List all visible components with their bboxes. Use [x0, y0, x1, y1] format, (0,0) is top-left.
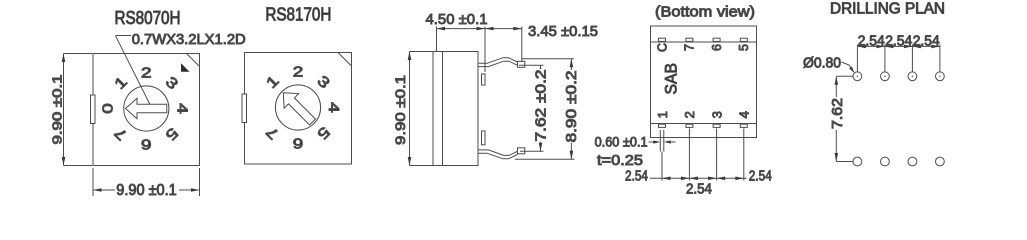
svg-text:9.90 ±0.1: 9.90 ±0.1 [116, 182, 177, 199]
leader line to rotor [116, 35, 132, 37]
rotor arrow slot [126, 98, 167, 119]
svg-text:6: 6 [710, 44, 724, 51]
dimension 9.90 below view1 [92, 168, 94, 196]
svg-text:C: C [655, 43, 669, 52]
top pin pad 6 [713, 38, 720, 41]
svg-text:2: 2 [682, 111, 697, 118]
svg-text:1: 1 [263, 73, 282, 92]
bottom pin end lug [518, 148, 525, 154]
svg-text:7.62 ±0.2: 7.62 ±0.2 [534, 70, 550, 142]
svg-text:2.54: 2.54 [885, 32, 912, 49]
bottom pin pad 2 [686, 124, 693, 127]
svg-text:2: 2 [141, 64, 152, 81]
rotor circle [124, 86, 169, 131]
svg-text:2.54: 2.54 [913, 32, 940, 49]
svg-text:DRILLING PLAN: DRILLING PLAN [830, 0, 945, 17]
svg-text:9.90 ±0.1: 9.90 ±0.1 [392, 75, 408, 145]
svg-text:7: 7 [111, 124, 130, 143]
corner index triangle [181, 63, 190, 72]
dimension 2.54 pin pitch row [650, 177, 747, 179]
svg-text:5: 5 [162, 124, 181, 143]
pin 1 center line [661, 152, 663, 181]
dimension 8.90 overall pin span [522, 58, 574, 60]
svg-text:2.54: 2.54 [686, 182, 712, 198]
corner chamfer line [187, 54, 200, 67]
switch body RS8070H [93, 54, 200, 166]
svg-text:0.7WX3.2LX1.2D: 0.7WX3.2LX1.2D [132, 31, 246, 48]
svg-text:SAB: SAB [662, 63, 681, 95]
lower seating tab [482, 131, 486, 145]
svg-text:6: 6 [293, 135, 304, 152]
top pin pad 7 [686, 38, 693, 41]
side notch [91, 95, 96, 124]
top pin end lug [518, 61, 525, 67]
rotor circle view2 [275, 85, 320, 130]
side view body [433, 52, 478, 166]
bottom pin pad 3 [713, 124, 720, 127]
upper seating tab [482, 74, 486, 85]
svg-text:3: 3 [162, 74, 181, 93]
svg-text:0.60 ±0.1: 0.60 ±0.1 [595, 135, 648, 150]
top gull-wing pin [478, 58, 518, 64]
svg-text:8.90 ±0.2: 8.90 ±0.2 [564, 71, 580, 143]
svg-text:2.54: 2.54 [625, 168, 648, 184]
side notch view2 [242, 94, 247, 123]
svg-text:2.54: 2.54 [858, 32, 885, 49]
dimension 4.50 above side view [436, 27, 438, 52]
svg-text:2.54: 2.54 [749, 168, 772, 184]
dimension 2.54 drilling row [857, 45, 940, 47]
svg-text:4.50 ±0.1: 4.50 ±0.1 [426, 11, 488, 28]
bottom gull-wing pin [478, 150, 518, 156]
svg-text:5: 5 [737, 44, 751, 51]
dimension 9.90 left of side view [409, 52, 411, 166]
svg-text:6: 6 [141, 136, 152, 153]
switch body RS8170H [245, 53, 352, 165]
top pin pad 5 [740, 38, 747, 41]
rotor arrow slot view2 rotated 45deg [276, 86, 320, 130]
bottom drill holes [853, 157, 862, 166]
top pin pad C [659, 38, 666, 41]
svg-text:4: 4 [737, 111, 752, 118]
svg-text:4: 4 [325, 102, 342, 113]
inner edge line bottom [651, 123, 757, 125]
pin 1 lead edges [659, 130, 661, 152]
svg-text:RS8170H: RS8170H [265, 4, 331, 25]
dimension 3.45 to pin end [485, 28, 522, 30]
svg-text:3: 3 [709, 111, 724, 118]
svg-text:7: 7 [263, 123, 282, 142]
inner edge line top [651, 41, 757, 43]
hole extension lines [856, 45, 858, 74]
bottom pin pad 4 [740, 124, 747, 127]
leader to hole [842, 62, 854, 72]
svg-text:2: 2 [293, 63, 304, 80]
svg-text:0: 0 [100, 103, 117, 114]
bottom view body outline [651, 26, 757, 138]
svg-text:9.90 ±0.1: 9.90 ±0.1 [50, 75, 65, 145]
corner chamfer line view2 [338, 53, 352, 67]
svg-text:1: 1 [655, 111, 670, 118]
svg-text:1: 1 [111, 74, 130, 93]
svg-text:RS8070H: RS8070H [115, 7, 181, 28]
svg-text:7.62: 7.62 [829, 98, 846, 129]
bottom pin pad 1 [659, 124, 666, 127]
dimension 7.62 drilling rows [836, 75, 853, 77]
svg-text:5: 5 [314, 123, 333, 142]
svg-text:7: 7 [683, 44, 697, 51]
svg-text:3: 3 [314, 73, 333, 92]
dimension 7.62 pin pitch side view [519, 64, 544, 66]
pin 4 center line [743, 129, 745, 181]
top drill holes [853, 72, 862, 81]
body face line [442, 52, 444, 166]
pin 2 center line [688, 129, 690, 181]
svg-text:t=0.25: t=0.25 [597, 153, 643, 169]
svg-text:4: 4 [174, 103, 191, 114]
svg-text:(Bottom view): (Bottom view) [655, 4, 755, 21]
svg-text:Ø0.80: Ø0.80 [803, 55, 841, 72]
svg-text:3.45 ±0.15: 3.45 ±0.15 [528, 23, 598, 40]
dimension 9.90 left of view1 [63, 54, 65, 166]
pin 3 center line [716, 129, 718, 181]
